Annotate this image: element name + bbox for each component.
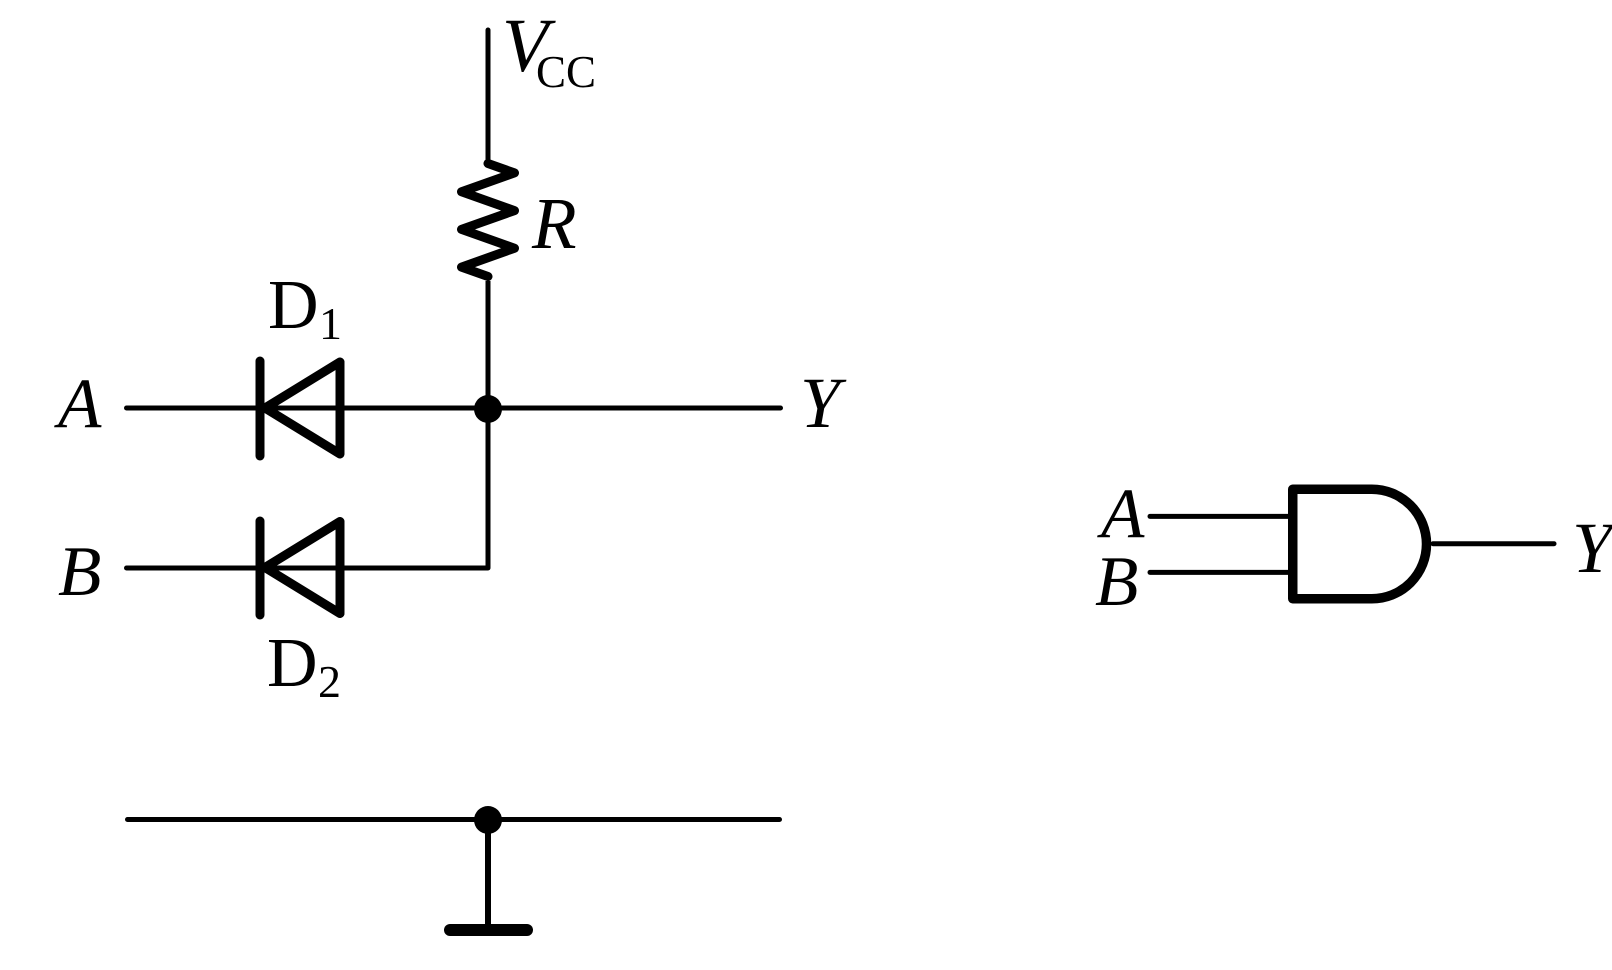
wire gate input B xyxy=(1150,570,1291,575)
resistor R xyxy=(462,164,515,277)
node ground junction dot xyxy=(474,806,502,834)
diode D2 xyxy=(260,521,340,615)
svg-text:A: A xyxy=(1097,475,1145,553)
wire gate output Y xyxy=(1433,541,1554,546)
label D2 xyxy=(267,625,341,707)
wire ground stub xyxy=(485,820,491,928)
svg-text:D: D xyxy=(268,267,319,344)
wire resistor to node to D2 junction xyxy=(486,281,491,568)
svg-text:R: R xyxy=(531,183,577,264)
wire input A through D1 to Y xyxy=(127,406,781,411)
svg-text:B: B xyxy=(1095,543,1138,621)
svg-text:B: B xyxy=(58,533,101,611)
label D1 xyxy=(268,267,342,349)
AND gate U1 xyxy=(1293,489,1427,599)
diode D1 xyxy=(260,361,340,456)
node Y junction dot xyxy=(474,395,502,423)
ground xyxy=(450,924,527,936)
svg-text:A: A xyxy=(54,365,102,443)
svg-text:Y: Y xyxy=(800,363,847,443)
wire input B through D2 xyxy=(127,566,489,571)
wire gate input A xyxy=(1150,514,1291,519)
svg-text:1: 1 xyxy=(319,298,342,349)
label Vcc xyxy=(502,4,596,97)
svg-text:2: 2 xyxy=(318,656,341,707)
svg-text:D: D xyxy=(267,625,318,702)
svg-text:CC: CC xyxy=(536,47,596,97)
svg-text:Y: Y xyxy=(1572,508,1612,588)
wire ground rail xyxy=(128,817,780,822)
wire Vcc vertical feed xyxy=(486,30,491,162)
